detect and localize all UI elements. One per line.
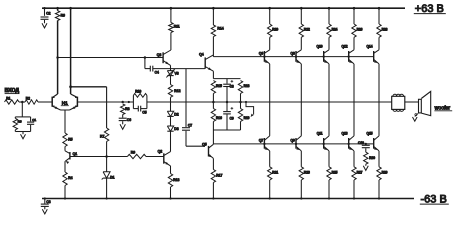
svg-text:Q14: Q14 <box>366 45 372 49</box>
svg-text:R14: R14 <box>217 27 223 31</box>
svg-text:R26: R26 <box>357 28 363 32</box>
svg-text:R15: R15 <box>216 84 222 88</box>
svg-text:Q15: Q15 <box>366 132 372 136</box>
svg-text:R5: R5 <box>68 138 72 142</box>
svg-text:R18: R18 <box>244 84 250 88</box>
svg-text:Q3: Q3 <box>157 53 162 57</box>
svg-text:R21: R21 <box>272 171 278 175</box>
svg-text:R7: R7 <box>100 134 104 138</box>
svg-text:R13: R13 <box>173 178 179 182</box>
svg-text:R1: R1 <box>6 96 10 100</box>
svg-text:R10: R10 <box>135 90 141 94</box>
svg-text:R29: R29 <box>382 171 388 175</box>
svg-text:R25: R25 <box>332 171 338 175</box>
svg-text:R9: R9 <box>131 150 135 154</box>
svg-text:C1: C1 <box>32 118 36 122</box>
svg-text:C8: C8 <box>230 85 234 89</box>
svg-text:Q4: Q4 <box>199 53 204 57</box>
svg-text:R3: R3 <box>18 120 22 124</box>
svg-text:Q7: Q7 <box>259 139 263 143</box>
svg-text:Q8: Q8 <box>291 52 295 56</box>
svg-text:R16: R16 <box>216 116 222 120</box>
svg-text:Q13: Q13 <box>341 132 347 136</box>
svg-text:R30: R30 <box>369 156 375 160</box>
svg-text:R17: R17 <box>216 174 222 178</box>
svg-text:C2: C2 <box>46 12 50 16</box>
svg-text:R23: R23 <box>304 171 310 175</box>
svg-text:Q10: Q10 <box>316 45 322 49</box>
svg-text:C4: C4 <box>155 71 159 75</box>
svg-text:+63 B: +63 B <box>415 3 444 15</box>
svg-text:C5: C5 <box>142 110 146 114</box>
svg-text:R11: R11 <box>174 25 180 29</box>
svg-text:V8: V8 <box>175 72 179 76</box>
svg-text:R28: R28 <box>382 28 388 32</box>
svg-text:Q2: Q2 <box>158 149 163 153</box>
svg-text:C3: C3 <box>46 200 50 204</box>
svg-text:R8: R8 <box>125 107 129 111</box>
svg-text:D3: D3 <box>174 127 178 131</box>
svg-text:C6: C6 <box>127 118 131 122</box>
svg-text:-63 B: -63 B <box>421 193 447 205</box>
svg-text:C7: C7 <box>188 123 192 127</box>
svg-text:Q5: Q5 <box>202 142 207 146</box>
svg-text:D1: D1 <box>110 176 114 180</box>
svg-text:R4: R4 <box>68 176 72 180</box>
svg-text:C9: C9 <box>230 116 234 120</box>
svg-text:R19: R19 <box>244 116 250 120</box>
svg-text:R22: R22 <box>304 28 310 32</box>
svg-text:Q11: Q11 <box>317 132 323 136</box>
svg-text:R12: R12 <box>174 89 180 93</box>
svg-text:R6: R6 <box>61 13 65 17</box>
svg-text:R24: R24 <box>332 28 338 32</box>
svg-text:Q12: Q12 <box>341 45 347 49</box>
svg-text:R20: R20 <box>272 28 278 32</box>
svg-text:Q9: Q9 <box>291 139 295 143</box>
svg-text:Q1: Q1 <box>73 152 78 156</box>
svg-text:C10: C10 <box>358 141 364 145</box>
svg-text:Q6: Q6 <box>259 52 263 56</box>
svg-text:D2: D2 <box>174 112 178 116</box>
svg-text:R27: R27 <box>357 171 363 175</box>
